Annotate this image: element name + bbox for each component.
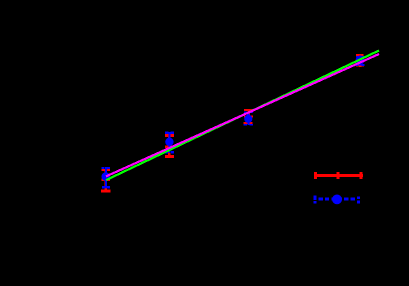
cluster 3 red errorbar: [244, 109, 253, 124]
legend red entry: [314, 172, 363, 179]
cluster 2 blue point: [165, 132, 174, 154]
cluster 4 blue point: [356, 56, 365, 67]
green fit line: [106, 51, 379, 181]
cluster 1 red errorbar: [101, 169, 111, 193]
legend blue entry: [314, 196, 361, 204]
cluster 2 red errorbar: [165, 134, 174, 158]
magenta fit line: [106, 54, 379, 176]
cluster 3 blue point: [244, 111, 253, 125]
cluster 4 red errorbar: [356, 54, 364, 67]
cluster 1 blue point: [102, 167, 110, 189]
